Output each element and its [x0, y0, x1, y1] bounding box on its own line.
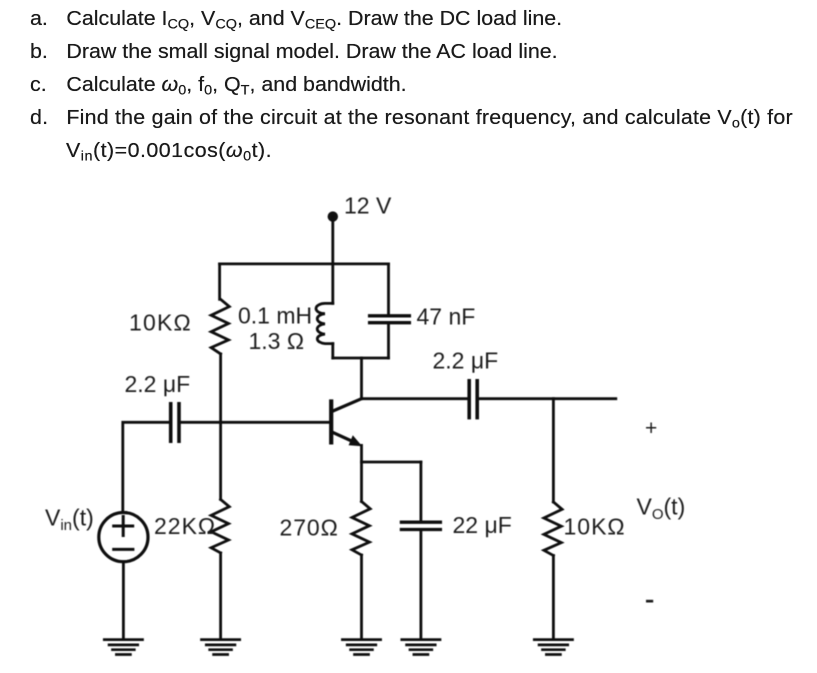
wire 22uF cap to ground [419, 531, 422, 640]
wire 22uF branch down to cap [419, 462, 422, 521]
wire 12V down to top rail and inductor top [331, 217, 334, 303]
svg-text:1.3 Ω: 1.3 Ω [249, 328, 305, 354]
inductor L 0.1mH [316, 303, 333, 343]
wire 47nF top (rail to cap) [387, 264, 390, 314]
wire input cap left to Vin corner [123, 422, 171, 512]
ground for 270 [342, 640, 380, 655]
svg-text:2.2 μF: 2.2 μF [125, 371, 191, 397]
svg-text:VO(t): VO(t) [637, 494, 686, 524]
transistor Q1 emitter stroke [332, 432, 357, 443]
ground for load [534, 640, 572, 655]
capacitor C 2.2uF output plates [469, 381, 477, 418]
problem statement line b [30, 41, 558, 64]
source Vin minus [114, 548, 133, 551]
wire 22K to ground [219, 553, 222, 640]
source Vin plus [114, 517, 133, 536]
wire collector horizontal to output cap [362, 397, 470, 400]
resistor R 10K bias [211, 299, 229, 354]
wire emitter down [360, 445, 363, 462]
svg-text:+: + [645, 417, 657, 440]
label minus [646, 600, 653, 603]
wire base junction down to 22K resistor [219, 422, 222, 499]
svg-text:0.1 mH: 0.1 mH [238, 303, 312, 329]
wire load resistor to ground [552, 556, 555, 640]
svg-text:270Ω: 270Ω [280, 515, 339, 541]
svg-text:12 V: 12 V [344, 192, 392, 218]
transistor Q1 emitter arrowhead [349, 435, 363, 446]
wire 10K bottom to base junction [219, 354, 222, 422]
problem statement line c [30, 74, 407, 98]
problem statement line d [30, 107, 793, 131]
capacitor C 2.2uF input plates [171, 404, 179, 441]
ground for Vin [104, 640, 142, 655]
svg-text:Vin(t): Vin(t) [45, 505, 94, 535]
capacitor C 47nF plates [370, 316, 410, 323]
svg-text:2.2 μF: 2.2 μF [433, 348, 499, 374]
wire top rail [220, 262, 389, 265]
wire base from input cap to transistor [179, 421, 331, 424]
resistor R 270 [352, 502, 370, 556]
problem statement line a [30, 8, 562, 32]
wire inductor bottom to tank bottom rail [331, 344, 334, 358]
wire load resistor top [552, 399, 555, 502]
svg-text:47 nF: 47 nF [417, 304, 476, 330]
source Vin circle [99, 513, 148, 562]
svg-text:22 μF: 22 μF [453, 512, 512, 538]
resistor R 22K [211, 499, 229, 553]
svg-text:22KΩ: 22KΩ [154, 513, 216, 539]
transistor Q1 collector stroke [332, 399, 362, 412]
wire 270 to ground [360, 555, 363, 640]
wire tank rail to collector [360, 358, 363, 399]
wire tank bottom rail [333, 357, 389, 360]
ground for 22K [202, 640, 240, 655]
wire output cap to right end [477, 397, 616, 400]
wire Vin bottom to ground [122, 562, 125, 640]
problem statement line d continuation [66, 140, 272, 164]
transistor Q1 base bar [329, 402, 333, 443]
svg-text:10KΩ: 10KΩ [129, 309, 192, 335]
wire emitter junction down to 270 resistor [360, 462, 363, 502]
capacitor C 22uF plates [401, 522, 440, 529]
wire left vertical rail top (rail to 10K resistor) [218, 264, 221, 299]
node 12V supply dot [328, 211, 338, 221]
resistor R 10K load [544, 502, 562, 556]
ground for 22uF [402, 640, 440, 655]
svg-text:10KΩ: 10KΩ [564, 514, 626, 540]
wire emitter junction to 22uF branch [362, 461, 421, 464]
wire 47nF bottom to tank rail [387, 324, 390, 358]
